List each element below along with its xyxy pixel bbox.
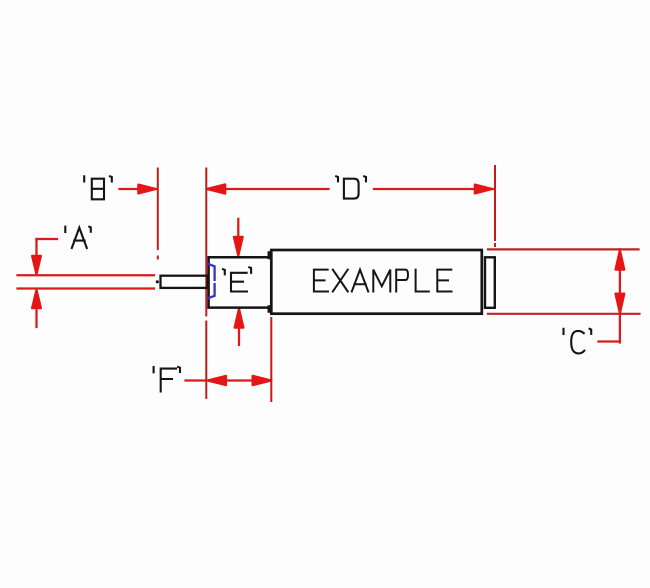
arrowhead B (points right) bbox=[139, 185, 156, 193]
junction tick bottom (collar/body) bbox=[268, 307, 271, 312]
arrowhead E top (points down) bbox=[234, 237, 242, 255]
arrowhead F left (points left) bbox=[208, 376, 226, 385]
label 'A' with quotes bbox=[65, 227, 91, 248]
arrowhead D right (points right) bbox=[475, 185, 492, 193]
extension line right of D at x=495 bbox=[494, 166, 496, 246]
end cap bbox=[485, 257, 495, 308]
label 'F' with quotes bbox=[154, 367, 180, 391]
arrowhead E bottom (points up) bbox=[235, 310, 243, 328]
main body cylinder bbox=[271, 250, 482, 314]
label 'C' with quotes bbox=[564, 329, 592, 354]
lead extension line bottom bbox=[18, 287, 155, 289]
arrowhead A top (points down) bbox=[32, 256, 40, 274]
label 'E' with quotes (inside collar) bbox=[223, 267, 251, 291]
dimension line B leader bbox=[120, 188, 158, 190]
dimension C top extension line bbox=[488, 248, 639, 250]
junction tick top (collar/body) bbox=[268, 253, 271, 259]
arrowhead C top (points up) bbox=[616, 251, 624, 270]
dimension line D left segment with left-pointing arrowhead bbox=[208, 185, 226, 194]
dimension F line bbox=[186, 379, 272, 381]
dimension C bottom extension line bbox=[488, 313, 640, 315]
arrowhead A bottom (points up) bbox=[32, 291, 40, 309]
dimension A leader bbox=[37, 239, 58, 256]
blue hidden-feature bracket inside collar bbox=[209, 264, 215, 298]
extension line right of F at x=271.3 bbox=[270, 318, 272, 401]
dimension E top arrow shaft bbox=[237, 219, 239, 238]
collar (small front cylinder) bbox=[209, 257, 269, 307]
extension line left of B at x=157.8 bbox=[157, 169, 159, 259]
lead tip dot bbox=[156, 280, 159, 283]
label 'D' with quotes bbox=[336, 176, 366, 198]
extension line left of D at x=206.3 bbox=[205, 169, 207, 399]
EXAMPLE text on body bbox=[314, 270, 452, 292]
lead extension line top bbox=[18, 274, 155, 276]
lead wire (black rod) bbox=[161, 276, 208, 288]
arrowhead F right (points right) bbox=[253, 376, 270, 385]
dimension C vertical line bbox=[619, 249, 621, 342]
label 'B' with quotes bbox=[84, 176, 112, 199]
dimension C leader bbox=[599, 340, 620, 342]
arrowhead C bottom (points down) bbox=[616, 294, 624, 313]
